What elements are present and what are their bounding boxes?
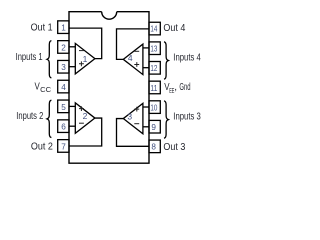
brace for Inputs 4 (pins 13-12) — [164, 42, 168, 79]
svg-text:1: 1 — [61, 24, 66, 33]
op-amp U1C triangle — [123, 103, 143, 134]
svg-text:Inputs 2: Inputs 2 — [16, 111, 43, 122]
wire U1B output loop to pin 7 — [69, 118, 102, 146]
pin 5 box — [58, 100, 69, 113]
op-amp U1D minus sign (pin 13 input) — [134, 50, 139, 52]
wire pin10 to U1C non-inverting input — [143, 106, 149, 108]
wire pin12 to U1D non-inverting input — [143, 67, 149, 69]
op-amp U1A minus sign (pin 2 input) — [79, 50, 84, 52]
notch (index semicircle) — [102, 12, 117, 19]
svg-text:3: 3 — [127, 112, 132, 122]
svg-text:11: 11 — [150, 84, 157, 93]
svg-text:3: 3 — [61, 63, 66, 72]
svg-text:7: 7 — [61, 142, 66, 151]
svg-text:1: 1 — [83, 54, 88, 64]
wire pin9 to U1C inverting input — [143, 126, 149, 128]
svg-text:2: 2 — [83, 111, 88, 121]
wire U1D output loop to pin 14 — [117, 29, 150, 59]
op-amp U1D plus sign (pin 12 input) — [134, 62, 139, 67]
op-amp U1D triangle — [123, 44, 143, 75]
pin 3 box — [58, 60, 69, 73]
svg-text:2: 2 — [61, 43, 66, 52]
wire pin6 to U1B inverting input — [69, 125, 75, 127]
svg-text:Inputs 4: Inputs 4 — [173, 53, 201, 64]
pin 4 box — [58, 80, 69, 93]
op-amp U1B minus sign (pin 6 input) — [79, 122, 84, 124]
op-amp U1A plus sign (pin 3 input) — [79, 61, 84, 66]
brace for Inputs 1 (pins 2-3) — [47, 41, 51, 78]
svg-text:CC: CC — [40, 85, 52, 94]
pin 11 box — [149, 81, 160, 94]
pin 6 box — [58, 120, 69, 133]
svg-text:Out 1: Out 1 — [31, 23, 53, 34]
svg-text:6: 6 — [61, 123, 66, 132]
svg-text:14: 14 — [150, 25, 157, 34]
brace for Inputs 2 (pins 5-6) — [47, 100, 51, 137]
wire pin13 to U1D inverting input — [143, 47, 149, 49]
svg-text:4: 4 — [128, 53, 133, 63]
svg-text:Out 3: Out 3 — [163, 142, 185, 153]
IC body outline U1 (DIP-14 package with notch) — [69, 12, 149, 164]
svg-text:,: , — [174, 82, 177, 93]
pin 12 box — [149, 62, 160, 75]
pin 1 box — [58, 21, 69, 34]
wire U1C output loop to pin 8 — [117, 119, 150, 147]
pin 8 box — [149, 140, 160, 153]
wire pin2 to U1A inverting input — [69, 46, 75, 48]
svg-text:8: 8 — [151, 143, 156, 152]
wire U1A output loop to pin 1 — [69, 28, 102, 59]
brace for Inputs 3 (pins 10-9) — [164, 101, 168, 138]
pin 10 box — [149, 101, 160, 114]
svg-text:Inputs 3: Inputs 3 — [173, 112, 201, 123]
wire pin3 to U1A non-inverting input — [69, 66, 75, 68]
svg-text:10: 10 — [150, 103, 157, 112]
op-amp U1C plus sign (pin 10 input) — [134, 107, 139, 112]
pin 14 box — [149, 22, 160, 35]
op-amp U1A triangle — [75, 43, 95, 74]
svg-text:4: 4 — [61, 83, 66, 92]
svg-text:13: 13 — [150, 45, 157, 54]
svg-text:Inputs 1: Inputs 1 — [16, 52, 43, 63]
svg-text:5: 5 — [61, 103, 66, 112]
wire pin5 to U1B non-inverting input — [69, 105, 75, 107]
pin 13 box — [149, 42, 160, 55]
svg-text:Gnd: Gnd — [179, 82, 190, 93]
svg-text:12: 12 — [150, 64, 157, 73]
svg-text:Out 2: Out 2 — [31, 141, 53, 152]
op-amp U1B triangle — [75, 103, 95, 134]
op-amp U1C minus sign (pin 9 input) — [134, 123, 139, 125]
svg-text:9: 9 — [151, 123, 156, 132]
pin 7 box — [58, 140, 69, 153]
pin 2 box — [58, 41, 69, 54]
svg-text:Out 4: Out 4 — [163, 23, 185, 34]
op-amp U1B plus sign (pin 5 input) — [79, 106, 84, 111]
pin 9 box — [149, 120, 160, 133]
